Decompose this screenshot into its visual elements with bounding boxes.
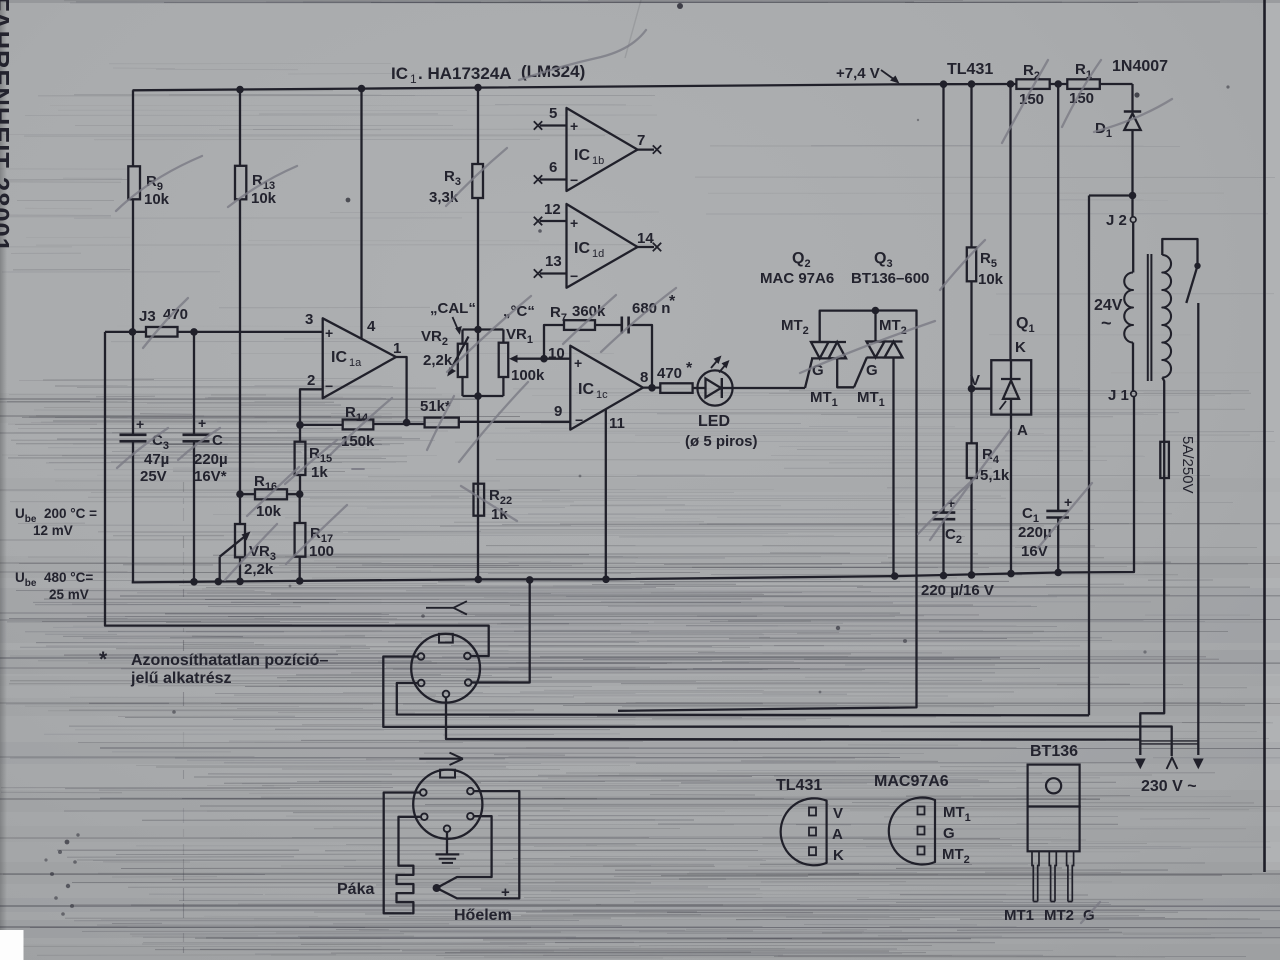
node bus / R4 xyxy=(968,571,976,579)
DIN2 pin UL xyxy=(420,789,427,796)
pencil check marks xyxy=(116,30,1172,923)
svg-text:MAC97A6: MAC97A6 xyxy=(874,773,949,790)
op-amp IC1a xyxy=(323,318,396,398)
triac Q2 MAC97A6 xyxy=(805,358,812,388)
DIN2 pin ML xyxy=(421,814,428,821)
svg-text:5A/250V: 5A/250V xyxy=(1179,436,1196,494)
resistor R1 150 xyxy=(1067,79,1100,89)
wire ground bus xyxy=(132,397,1134,583)
svg-text:Páka: Páka xyxy=(337,881,374,898)
heater element Paka xyxy=(397,817,421,914)
resistor R3 xyxy=(477,88,479,164)
node top bus / R13 xyxy=(236,86,244,94)
node top bus / Q1 K branch xyxy=(1007,80,1015,88)
node bus / pin11 xyxy=(602,576,610,584)
transformer primary 24V xyxy=(1132,222,1134,272)
node bus / R22 xyxy=(475,576,483,584)
svg-text:+7,4 V: +7,4 V xyxy=(836,65,880,82)
svg-text:1: 1 xyxy=(393,340,401,357)
node Q2/Q3 MT2 xyxy=(872,307,880,315)
node V junction xyxy=(968,385,976,393)
svg-text:IC: IC xyxy=(578,381,594,398)
svg-text:−: − xyxy=(575,412,583,428)
svg-text:200 °C =: 200 °C = xyxy=(44,506,97,521)
node J3 / R9 xyxy=(129,328,137,336)
svg-text:2: 2 xyxy=(307,372,315,389)
potentiometer VR1 100k xyxy=(502,330,504,343)
svg-text:1b: 1b xyxy=(592,155,604,167)
wire +7.4V top bus xyxy=(133,84,1017,90)
svg-text:12: 12 xyxy=(544,201,561,218)
svg-text:J 2: J 2 xyxy=(1106,212,1127,229)
svg-text:8: 8 xyxy=(640,369,648,386)
ground symbol xyxy=(446,832,448,854)
svg-text:*: * xyxy=(686,360,693,377)
wire VR1 wiper to pin10 xyxy=(516,358,544,360)
wire DIN1 ML pin to transformer line xyxy=(397,683,1089,715)
regulator Q1 TL431 xyxy=(1009,84,1011,360)
svg-text:150k: 150k xyxy=(341,433,375,450)
svg-text:J 1: J 1 xyxy=(1108,387,1129,404)
svg-text:220 µ/16 V: 220 µ/16 V xyxy=(921,582,994,599)
DIN2 pin MR xyxy=(467,813,474,820)
svg-text:IC: IC xyxy=(331,349,347,366)
node bus / Q3 MT1 xyxy=(891,572,899,580)
wire left loop to DIN1 xyxy=(105,332,489,656)
node top bus / IC1a pin4 xyxy=(358,85,366,93)
svg-text:A: A xyxy=(1017,422,1028,439)
svg-text:230 V ~: 230 V ~ xyxy=(1141,778,1197,795)
node rails top / R3 xyxy=(474,326,482,334)
svg-text:16V: 16V xyxy=(1021,543,1048,560)
svg-text:480 °C=: 480 °C= xyxy=(44,570,93,585)
switch xyxy=(1194,263,1200,269)
wire DIN1 MR pin to bus xyxy=(472,580,530,683)
triac Q3 BT136-600 xyxy=(854,358,867,388)
resistor R17 100 xyxy=(299,494,301,523)
svg-text:G: G xyxy=(866,362,878,379)
wire long descent to DIN line xyxy=(1088,196,1090,716)
wire Q3 MT1 down xyxy=(892,358,894,577)
node pin10 xyxy=(540,355,548,363)
wire pin10 xyxy=(544,358,570,360)
wire IC1a output xyxy=(396,357,407,423)
capacitor C 220u 16V xyxy=(193,332,195,435)
svg-text:25V: 25V xyxy=(140,468,167,485)
DIN1 pin UL xyxy=(418,653,425,660)
svg-text:47µ: 47µ xyxy=(144,451,169,468)
svg-text:16V*: 16V* xyxy=(194,468,227,485)
node top bus / R3 xyxy=(474,84,482,92)
wire pin11 xyxy=(605,409,607,579)
DIN2 pin C xyxy=(444,825,451,832)
resistor R2 150 xyxy=(1016,79,1049,89)
svg-text:K: K xyxy=(833,847,844,864)
node R13 branch / R16 xyxy=(236,490,244,498)
svg-text:7: 7 xyxy=(637,132,645,149)
node R14 / R15 xyxy=(296,421,304,429)
svg-text:TL431: TL431 xyxy=(776,777,822,794)
svg-text:10k: 10k xyxy=(256,503,282,520)
resistor R13 xyxy=(239,90,241,166)
svg-text:MAC 97A6: MAC 97A6 xyxy=(760,270,834,287)
transformer core xyxy=(1147,254,1149,381)
resistor R16 10k xyxy=(240,493,255,495)
fuse 5A/250V xyxy=(1160,442,1169,478)
connector J2 xyxy=(1131,196,1133,217)
resistor R7 360k xyxy=(544,325,564,359)
capacitor 680n* xyxy=(620,317,623,334)
svg-text:3: 3 xyxy=(305,311,313,328)
transformer secondary xyxy=(1162,255,1171,378)
DIN1 pin ML xyxy=(418,680,425,687)
svg-text:FAHRENHEIT 28001: FAHRENHEIT 28001 xyxy=(0,0,13,253)
op-amp IC1d xyxy=(567,204,638,288)
svg-text:5: 5 xyxy=(549,105,557,122)
node D1 / J2 xyxy=(1129,192,1137,200)
DIN1 pin C xyxy=(443,691,450,698)
wire J2 node to descent xyxy=(1089,194,1133,196)
wire DIN2 UL to heater xyxy=(384,793,420,914)
svg-text:Hőelem: Hőelem xyxy=(454,907,512,924)
svg-text:(ø 5 piros): (ø 5 piros) xyxy=(685,433,758,450)
potentiometer VR3 2,2k xyxy=(239,494,241,524)
node R15/R16/R17 xyxy=(296,490,304,498)
svg-text:1k: 1k xyxy=(311,464,328,481)
svg-text:C: C xyxy=(212,432,223,449)
svg-text:9: 9 xyxy=(554,403,562,420)
wire LED to Q2 gate xyxy=(733,387,805,389)
svg-text:+: + xyxy=(574,355,582,371)
resistor R4 5,1k xyxy=(970,389,972,444)
svg-text:*: * xyxy=(669,293,676,310)
node top bus / R5 branch xyxy=(968,80,976,88)
svg-text:5,1k: 5,1k xyxy=(980,467,1010,484)
svg-text:(LM324): (LM324) xyxy=(521,62,585,81)
svg-text:~: ~ xyxy=(1101,313,1112,333)
DIN2 pin UR xyxy=(467,788,474,795)
svg-text:G: G xyxy=(943,825,955,842)
capacitor C3 47u 25V xyxy=(132,332,134,435)
svg-text:24V: 24V xyxy=(1094,297,1123,314)
wire IC1d pin12 xyxy=(540,220,567,222)
diode D1 1N4007 xyxy=(1131,84,1133,112)
svg-text:J3: J3 xyxy=(139,308,156,325)
decorative white corner xyxy=(0,930,24,960)
svg-text:K: K xyxy=(1015,339,1026,356)
node bus / VR3 wiper xyxy=(215,578,223,586)
svg-text:BT136–600: BT136–600 xyxy=(851,270,929,287)
svg-text:11: 11 xyxy=(609,415,625,432)
arrow direction (right) xyxy=(419,758,463,760)
resistor J3 470 xyxy=(105,331,146,333)
svg-text:1a: 1a xyxy=(349,357,362,369)
node rails bottom xyxy=(474,392,482,400)
wire DIN1 UL pin to mains xyxy=(383,657,1171,757)
svg-text:A: A xyxy=(832,826,843,843)
svg-text:13: 13 xyxy=(545,253,562,270)
svg-text:2,2k: 2,2k xyxy=(244,561,274,578)
svg-text:TL431: TL431 xyxy=(947,61,993,78)
border line (page frame right) xyxy=(1263,0,1266,872)
svg-text:470: 470 xyxy=(657,365,682,382)
wire IC1b pin6 xyxy=(540,178,567,180)
svg-text:12 mV: 12 mV xyxy=(33,523,73,538)
svg-text:4: 4 xyxy=(367,318,376,335)
wire secondary top to switch xyxy=(1162,239,1197,263)
wire IC1b out pin7 xyxy=(638,148,655,150)
capacitor C2 xyxy=(942,84,944,512)
resistor R14 150k xyxy=(300,424,343,426)
capacitor C1 220u 16V xyxy=(1057,84,1059,511)
svg-text:−: − xyxy=(325,378,333,394)
node top bus / C2 branch xyxy=(940,80,948,88)
svg-text:1: 1 xyxy=(410,72,417,86)
thermocouple Hoelem xyxy=(437,791,520,898)
svg-text:+: + xyxy=(325,325,333,341)
svg-text:+: + xyxy=(136,416,144,432)
svg-text:V: V xyxy=(970,372,980,389)
wire secondary bottom to fuse xyxy=(1162,378,1164,442)
svg-text:−: − xyxy=(570,172,578,188)
svg-text:10k: 10k xyxy=(251,190,277,207)
svg-text:IC: IC xyxy=(574,147,590,164)
wire MT2 node to transformer line xyxy=(618,311,917,711)
resistor R22 1k xyxy=(474,484,485,516)
svg-text:100: 100 xyxy=(309,543,334,560)
svg-text:+: + xyxy=(198,415,206,431)
node bus / C1 xyxy=(1054,569,1062,577)
op-amp IC1b xyxy=(567,108,638,191)
node bus / C2 xyxy=(940,572,948,580)
node bus / Q1 A xyxy=(1007,570,1015,578)
svg-text:1c: 1c xyxy=(596,389,608,401)
svg-text:BT136: BT136 xyxy=(1030,743,1078,760)
svg-text:220µ: 220µ xyxy=(194,451,228,468)
resistor 470* xyxy=(643,386,660,388)
svg-text:1N4007: 1N4007 xyxy=(1112,58,1168,75)
wire IC1d out pin14 xyxy=(638,246,655,248)
arrow mains up xyxy=(1167,758,1178,770)
svg-text:IC: IC xyxy=(574,240,590,257)
svg-text:LED: LED xyxy=(698,413,730,430)
node IC1c out xyxy=(648,384,656,392)
decorative paper crease xyxy=(183,482,185,953)
svg-text:. HA17324A: . HA17324A xyxy=(418,64,512,83)
node R2/R1 junction xyxy=(1054,80,1062,88)
svg-text:Azonosíthatatlan pozíció–: Azonosíthatatlan pozíció– xyxy=(131,652,328,669)
svg-text:*: * xyxy=(99,648,108,671)
svg-text:V: V xyxy=(833,805,843,822)
node bus / DIN riser xyxy=(526,576,534,584)
connector bars xyxy=(1140,740,1199,742)
svg-text:jelű alkatrész: jelű alkatrész xyxy=(130,670,232,687)
op-amp IC1c xyxy=(570,346,643,430)
DIN1 pin UR xyxy=(464,653,471,660)
wire DIN1 center pin line xyxy=(446,697,1140,739)
wire IC1d pin13 xyxy=(540,272,567,274)
resistor R9 xyxy=(132,90,134,166)
svg-text:25 mV: 25 mV xyxy=(49,587,89,602)
connector DIN2 (plug) xyxy=(413,770,482,839)
svg-text:10k: 10k xyxy=(144,191,170,208)
DIN1 pin MR xyxy=(465,679,472,686)
svg-text:1d: 1d xyxy=(592,248,604,260)
svg-text:+: + xyxy=(501,884,510,901)
node bus / VR3 xyxy=(236,578,244,586)
svg-text:−: − xyxy=(570,268,578,284)
resistor R5 10k xyxy=(970,84,972,247)
svg-text:MT1: MT1 xyxy=(1004,907,1034,924)
svg-text:360k: 360k xyxy=(572,303,606,320)
svg-text:10k: 10k xyxy=(978,271,1004,288)
svg-text:+: + xyxy=(570,118,578,134)
potentiometer VR2 2,2k CAL xyxy=(461,330,463,344)
wire IC1a pin2 xyxy=(300,389,323,425)
arrow signal direction (left) xyxy=(426,607,453,609)
resistor R15 1k xyxy=(299,425,301,442)
wire IC1a pin4 to bus xyxy=(360,89,362,339)
svg-text:IC: IC xyxy=(391,64,408,83)
svg-text:2,2k: 2,2k xyxy=(423,352,453,369)
svg-text:14: 14 xyxy=(637,230,654,247)
svg-text:„CAL“: „CAL“ xyxy=(430,300,476,317)
wire pot rails xyxy=(463,328,504,330)
node IC1a out / 51k xyxy=(403,419,411,427)
node bus / R17 xyxy=(296,577,304,585)
connector DIN1 (panel socket) xyxy=(411,634,480,703)
wire IC1b pin5 xyxy=(540,124,567,126)
connector J1 xyxy=(1131,391,1137,397)
svg-text:MT2: MT2 xyxy=(1044,907,1074,924)
node J3 / C branch xyxy=(190,328,198,336)
svg-text:+: + xyxy=(570,215,578,231)
svg-text:6: 6 xyxy=(549,159,557,176)
resistor 51k* xyxy=(425,418,459,428)
LED (o5 piros) xyxy=(697,370,732,405)
node bus / C xyxy=(190,578,198,586)
